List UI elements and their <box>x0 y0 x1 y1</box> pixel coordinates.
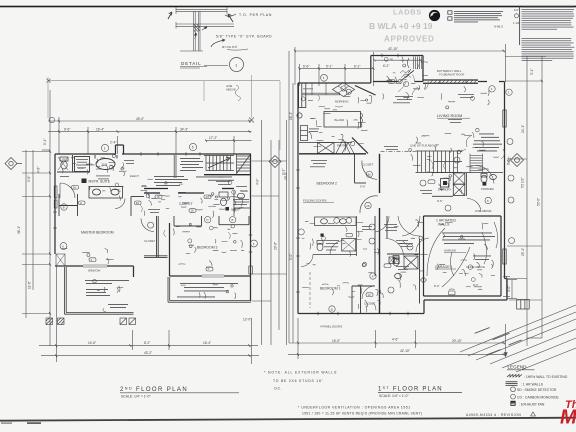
garage small tags <box>421 277 427 283</box>
middle bath fixtures <box>219 191 251 216</box>
driveway text marks <box>475 327 522 355</box>
kitchen corner pantry diamond <box>333 83 355 97</box>
kitchen island <box>324 112 362 128</box>
hall scribbles right plan <box>310 94 474 247</box>
hall walls <box>352 216 420 314</box>
garage room walls <box>424 216 502 296</box>
right margin notes paragraph 1 <box>522 7 575 30</box>
dim slash ticks right plan <box>294 50 505 356</box>
left plan bottom dims <box>39 266 259 364</box>
closet rod dashed <box>309 272 311 308</box>
bottom wall <box>298 313 424 315</box>
rafter note <box>196 177 234 181</box>
left wall <box>297 83 299 314</box>
left wall <box>54 154 56 254</box>
right margin notes paragraph 2 <box>522 38 575 61</box>
top wall <box>55 153 116 155</box>
left plan extra scribbles <box>60 160 247 213</box>
bedroom2 interior <box>355 155 379 214</box>
misc tags center <box>366 293 373 297</box>
stair notes scribble <box>180 158 203 171</box>
mid wall below stairs <box>144 175 251 193</box>
top wall under bump with door opening <box>373 81 423 83</box>
butterfly wall hatch <box>430 80 477 83</box>
kitchen top counter <box>302 83 340 95</box>
shower note scribbles <box>76 159 88 168</box>
stairs right plan <box>416 151 463 173</box>
diamond marker right <box>511 154 524 167</box>
red MLS logo <box>560 399 576 429</box>
right wall <box>504 82 506 279</box>
line-above leader <box>235 85 240 101</box>
detail drawing top plates <box>176 7 234 51</box>
garage right dims <box>503 276 510 297</box>
kitchen bottom wall <box>299 154 380 314</box>
stairs left plan <box>174 154 250 179</box>
border bottom tick marks <box>1 423 12 424</box>
window ticks left plan <box>53 152 252 252</box>
right plan right dims <box>505 56 546 346</box>
bedroom2 left closet <box>141 216 168 257</box>
left plan dim line 45ft <box>48 117 252 154</box>
window sills thin <box>56 254 224 277</box>
bedroom3 bottom <box>170 275 203 277</box>
garage bottom <box>424 299 507 301</box>
watermark LADBS <box>369 8 435 44</box>
stamp logo circle <box>429 10 440 21</box>
right margin separator <box>519 7 521 46</box>
kitchen counters bottom <box>299 140 354 154</box>
top wall left part <box>298 82 371 84</box>
bottom master <box>55 265 83 267</box>
top roof dim line <box>48 75 280 150</box>
left plan between dims right side <box>249 118 287 346</box>
diamond marker left <box>5 158 22 170</box>
hand scribble texture <box>62 56 499 312</box>
dash line of floor above <box>381 151 416 153</box>
powder <box>476 166 496 184</box>
upper stair ladder <box>470 154 483 173</box>
detail leader arrows <box>168 12 236 47</box>
left plan left vertical dims <box>22 90 50 346</box>
hall arcs center <box>375 216 429 256</box>
right plan left dims <box>289 51 293 343</box>
bump interior dim <box>374 59 423 62</box>
garage door dims <box>507 280 517 299</box>
attic access note <box>154 176 188 186</box>
stamp margin items <box>513 8 520 25</box>
vanity master <box>89 187 123 199</box>
driveway steps <box>517 300 530 310</box>
hand scribble texture 2 <box>62 57 494 310</box>
door leaf diagonal <box>400 70 414 82</box>
border top line <box>0 6 576 8</box>
window ticks right plan <box>296 54 466 316</box>
fire gyp note <box>473 134 502 152</box>
diamond marker mid <box>269 156 281 168</box>
right plan outer walls <box>298 56 507 314</box>
driveway diagonals <box>460 305 576 372</box>
dim slash ticks left plan <box>49 120 250 357</box>
closet lower-left <box>59 194 144 216</box>
bedroom1 hall extra arcs <box>301 198 481 299</box>
garage leader curves <box>427 222 498 287</box>
balcony notes right <box>177 283 238 297</box>
washer dryer boxes <box>389 257 399 264</box>
left balcony <box>65 267 134 314</box>
detail bubble 1 <box>230 58 244 72</box>
door arcs master <box>60 183 125 209</box>
top dim 42-10 <box>295 44 506 86</box>
extra circles right plan <box>420 180 426 186</box>
bedroom2 closets row <box>174 216 249 226</box>
appliance note scribbles <box>324 240 409 270</box>
left plan outer walls <box>55 145 251 301</box>
kitchen extra marks <box>318 95 343 107</box>
circle tag 1 <box>101 144 108 151</box>
column hatches bottom <box>46 318 136 325</box>
top wall right of bump to corner <box>423 79 478 81</box>
right balcony <box>168 277 251 302</box>
top bump walls <box>371 55 423 57</box>
wine rack <box>297 113 308 141</box>
kitchen top-right diagonal <box>355 86 376 96</box>
toilet master <box>58 157 68 170</box>
laundry <box>432 173 503 197</box>
fireplace hatch detail in bump <box>400 57 422 78</box>
fireplace leader scribbles <box>398 81 466 170</box>
cultured marble note <box>233 199 249 205</box>
right wall <box>250 154 252 301</box>
master bath interior <box>57 155 117 172</box>
border bottom line <box>0 417 576 422</box>
right plan bottom dims <box>288 318 507 359</box>
master suite label <box>82 179 87 184</box>
bath1 fixtures top <box>313 216 357 256</box>
detail stud hatch <box>194 24 200 32</box>
balcony notes left <box>85 280 129 308</box>
bath2 fixtures <box>393 256 418 279</box>
stamp text block <box>448 11 503 29</box>
kitchen diagonal wall <box>352 138 368 154</box>
hall tags <box>155 195 162 199</box>
circle tag 5 <box>189 143 196 150</box>
